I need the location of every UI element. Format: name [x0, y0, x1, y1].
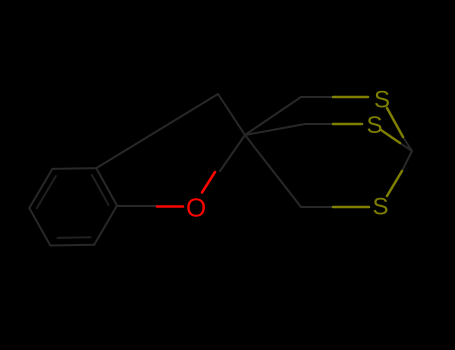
svg-text:O: O	[186, 193, 206, 223]
svg-text:S: S	[367, 112, 383, 139]
svg-text:S: S	[374, 87, 390, 114]
svg-text:S: S	[373, 194, 389, 221]
